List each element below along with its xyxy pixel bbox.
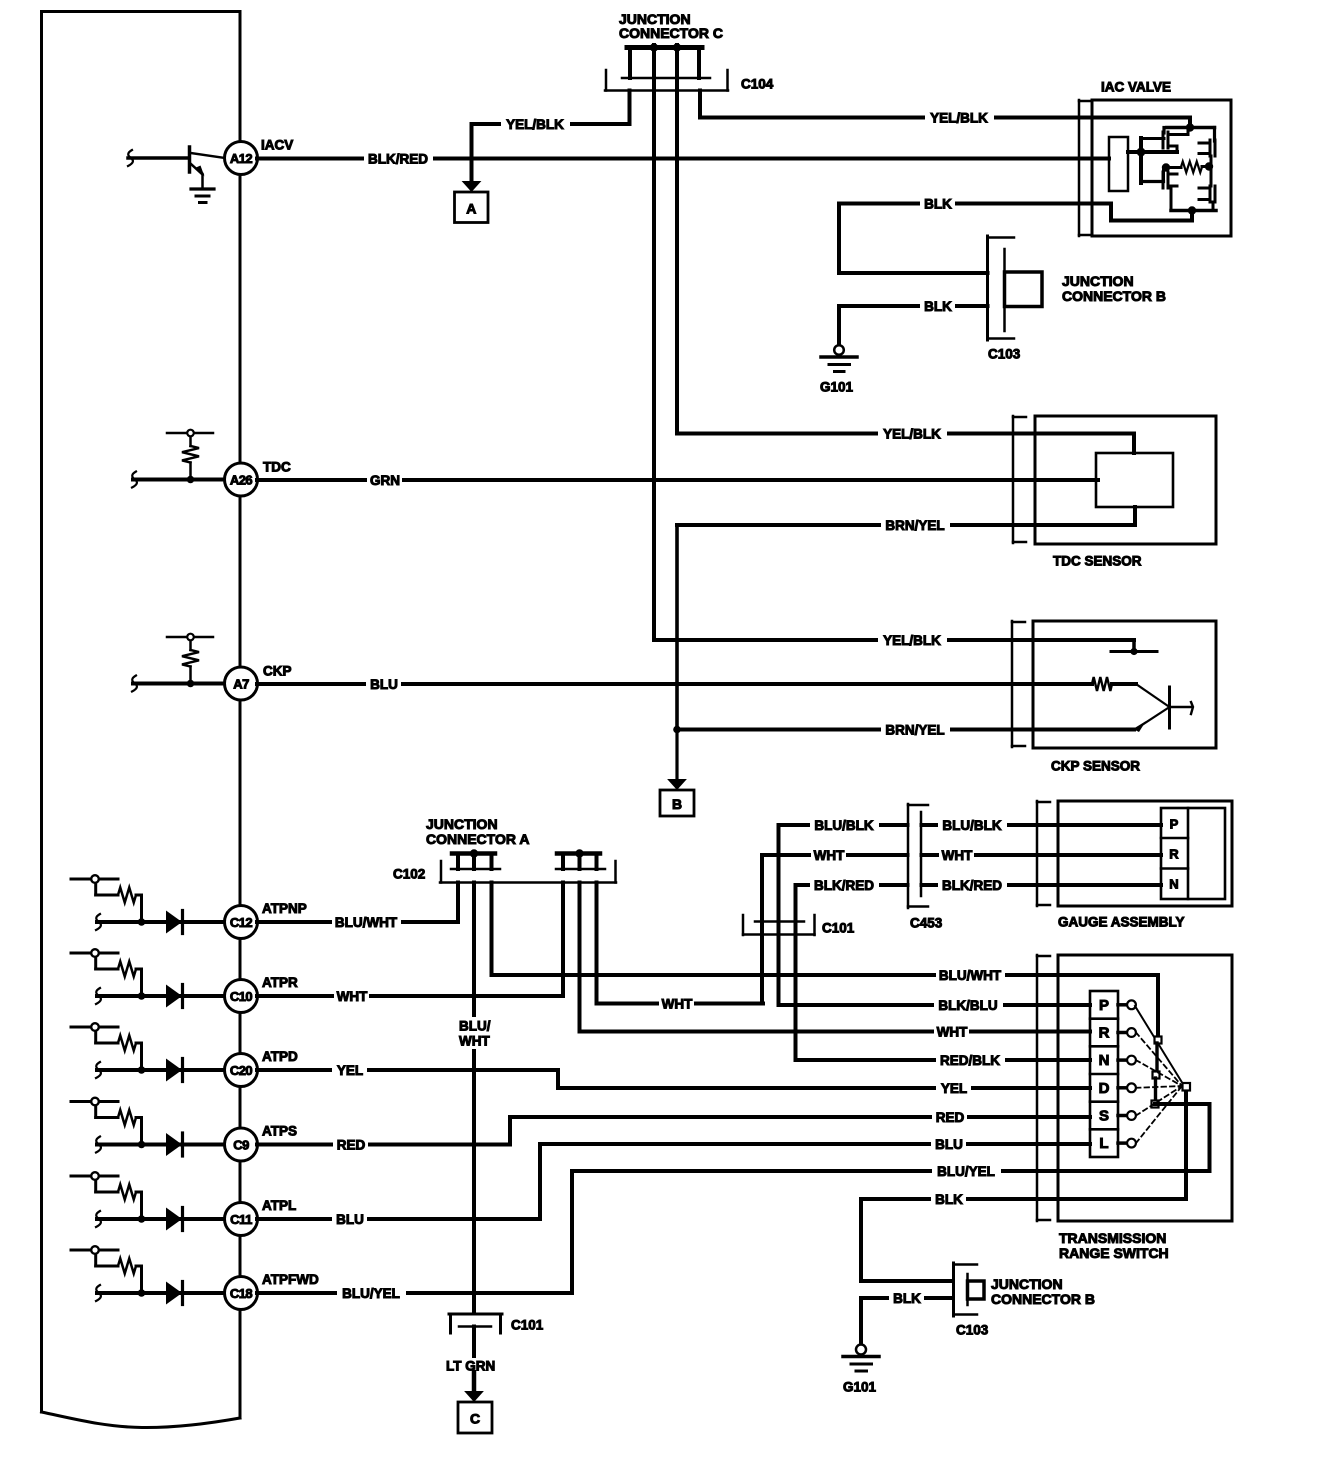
label WHT left of C453	[811, 847, 846, 863]
svg-text:C11: C11	[230, 1212, 252, 1227]
wire YEL/BLK from connector C to IAC valve	[700, 91, 1190, 118]
range switch rotor feed riser (BLU/WHT)	[1156, 975, 1160, 1037]
rotor pivot contact	[1183, 1083, 1191, 1091]
junction dot IAC mid	[1137, 148, 1146, 157]
label RED/BLK at switch	[936, 1052, 1005, 1068]
pull-up and diode network at pin C18	[71, 1250, 118, 1266]
wire YEL/BLK from connector C to CKP sensor	[654, 638, 1134, 642]
junction dot on C11 lead	[138, 1215, 146, 1223]
junction dot on housing 1	[470, 849, 478, 857]
rotor contact A	[1155, 1037, 1162, 1044]
TDC sensor case	[1035, 416, 1216, 544]
svg-text:C101: C101	[822, 921, 855, 936]
svg-text:D: D	[1099, 1080, 1110, 1097]
junction connector C pin 1 (x=654)	[652, 45, 656, 640]
svg-text:RANGE SWITCH: RANGE SWITCH	[1059, 1245, 1169, 1261]
label WHT	[334, 988, 369, 1004]
resistor R-C11	[118, 1185, 136, 1200]
IAC valve internal links	[1141, 167, 1211, 187]
transistor M2 top-right in IAC valve	[1199, 128, 1215, 164]
svg-text:C12: C12	[230, 915, 253, 930]
svg-text:P: P	[1170, 817, 1179, 832]
wire break tick	[96, 1062, 101, 1078]
wire into diode D-C10	[97, 994, 225, 998]
wire BLK from range switch to junction connector B (lower)	[861, 1090, 1186, 1281]
diode D-C12	[166, 911, 183, 934]
label YEL/BLK	[878, 632, 947, 648]
wire YEL/BLK from connector C to TDC sensor	[677, 432, 1134, 436]
connector C103 (junction connector B, upper)	[988, 236, 1043, 340]
svg-text:YEL: YEL	[337, 1063, 363, 1078]
resistor lead to A26 wire	[189, 463, 192, 480]
ground G101 (lower)	[843, 1345, 879, 1372]
ground G101 (upper)	[821, 345, 857, 371]
arrow into connector box A	[462, 181, 482, 192]
power node circle at C20	[91, 1023, 99, 1031]
junction dot on housing 2	[575, 849, 583, 857]
transistor M3 bottom-left in IAC valve	[1163, 172, 1177, 211]
wire into diode D-C20	[97, 1068, 225, 1072]
svg-text:ATPL: ATPL	[262, 1198, 296, 1213]
wire BLK from G101 to junction connector B (lower)	[861, 1298, 953, 1345]
svg-text:CONNECTOR B: CONNECTOR B	[991, 1291, 1095, 1307]
diode D-C9	[166, 1133, 183, 1156]
svg-text:A: A	[466, 200, 476, 216]
junction dot on C18 lead	[138, 1289, 146, 1297]
label YEL/BLK	[925, 110, 994, 126]
wire BLK/RED into IAC valve IC	[1092, 157, 1109, 161]
junction connector A housing 1	[452, 854, 495, 870]
wire BRN/YEL from node B riser to CKP sensor	[677, 728, 1134, 732]
svg-text:C104: C104	[741, 77, 774, 92]
connector bracket at range switch	[1036, 955, 1039, 1221]
connector bracket at TDC sensor	[1012, 416, 1015, 543]
svg-text:RED: RED	[337, 1138, 366, 1153]
contact stub L	[1118, 1141, 1128, 1145]
diode D-C11	[166, 1208, 183, 1231]
svg-text:BLK/BLU: BLK/BLU	[938, 998, 997, 1013]
svg-text:R: R	[1099, 1025, 1110, 1042]
contact stub N	[1118, 1058, 1128, 1062]
connector C101 (lower)	[449, 1314, 502, 1333]
dashed rotor throw to S	[1136, 1086, 1182, 1116]
wire WHT from junction connector A to range switch	[580, 883, 1091, 1032]
svg-text:CONNECTOR A: CONNECTOR A	[426, 831, 529, 847]
wire into diode D-C9	[97, 1143, 225, 1147]
svg-text:BLK: BLK	[893, 1291, 921, 1306]
label BLK	[920, 298, 955, 314]
label WHT at switch	[934, 1024, 969, 1040]
svg-text:GRN: GRN	[370, 473, 400, 488]
svg-text:WHT: WHT	[662, 997, 693, 1012]
pin C11 (ATPL)	[225, 1203, 258, 1236]
svg-text:BLU/YEL: BLU/YEL	[342, 1286, 400, 1301]
contact stub D	[1118, 1086, 1128, 1090]
svg-text:YEL/BLK: YEL/BLK	[930, 111, 988, 126]
svg-text:BLU/WHT: BLU/WHT	[335, 915, 398, 930]
junction dot on connector C pin 2	[673, 43, 681, 51]
junction dot on C10 lead	[138, 992, 146, 1000]
label BLU/WHT	[332, 914, 401, 930]
power node circle at C11	[91, 1172, 99, 1180]
coil lead dots	[1162, 162, 1213, 171]
label GRN	[367, 472, 402, 488]
label BLU/YEL at switch	[932, 1163, 1001, 1179]
wire BLK/RED from A12 to IAC valve	[257, 157, 1092, 161]
connector bracket at gauge assembly	[1036, 801, 1039, 906]
wire BLU from A7 to CKP sensor	[257, 682, 1092, 686]
label BLK at switch	[931, 1191, 966, 1207]
svg-text:BLU/BLK: BLU/BLK	[942, 818, 1001, 833]
connector C453	[908, 804, 928, 908]
contact circle S	[1127, 1111, 1136, 1120]
svg-text:L: L	[1099, 1135, 1108, 1152]
wire RED/BLK from C101 to range switch	[796, 1058, 1091, 1062]
arrow into connector box B	[667, 779, 687, 790]
svg-text:G101: G101	[820, 380, 854, 395]
transistor M1 top-left in IAC valve	[1163, 128, 1188, 153]
pin C10 (ATPR)	[225, 980, 258, 1013]
wire BRN/YEL from node B riser to TDC sensor	[677, 525, 1135, 730]
contact circle L	[1127, 1139, 1136, 1148]
connector C104 symbol	[605, 70, 728, 91]
label YEL/BLK	[501, 116, 570, 132]
IAC valve internal wire from YEL/BLK entry	[1167, 118, 1215, 128]
svg-text:ATPS: ATPS	[262, 1124, 297, 1139]
rotor contact C	[1152, 1101, 1159, 1108]
wire into diode D-C18	[97, 1291, 225, 1295]
svg-text:A26: A26	[230, 473, 253, 488]
power node circle at C12	[91, 875, 99, 883]
svg-text:JUNCTION: JUNCTION	[426, 816, 498, 832]
svg-text:C103: C103	[988, 347, 1021, 362]
dashed rotor throw to D	[1136, 1086, 1182, 1088]
TDC sensor internal leads	[1134, 434, 1135, 526]
power node circle at C9	[91, 1098, 99, 1106]
pin C12 (ATPNP)	[225, 906, 258, 939]
label BLU/BLK left of C453	[810, 817, 879, 833]
junction connector A housing 2	[557, 854, 600, 870]
wire riser to connector box B	[675, 730, 678, 782]
label BLU/YEL	[337, 1285, 406, 1301]
svg-text:WHT: WHT	[337, 989, 368, 1004]
svg-text:LT GRN: LT GRN	[446, 1359, 495, 1374]
wire into diode D-C12	[97, 920, 225, 924]
svg-text:CKP: CKP	[263, 664, 292, 679]
contact stub P	[1118, 1003, 1128, 1007]
svg-text:YEL/BLK: YEL/BLK	[883, 633, 941, 648]
dashed rotor throw to L	[1136, 1086, 1182, 1143]
svg-text:S: S	[1099, 1108, 1109, 1125]
wire WHT from junction connector A through C101 riser	[597, 883, 764, 1004]
label WHT mid	[659, 996, 694, 1012]
label YEL/BLK	[878, 426, 947, 442]
svg-text:P: P	[1099, 997, 1109, 1014]
resistor R-A26	[182, 446, 199, 463]
label BLU at switch	[931, 1136, 966, 1152]
svg-text:BLU/YEL: BLU/YEL	[937, 1164, 995, 1179]
svg-text:BLU: BLU	[370, 677, 398, 692]
label YEL at switch	[936, 1080, 971, 1096]
svg-text:C20: C20	[230, 1063, 253, 1078]
wire RED from C9 to transmission range switch	[257, 1117, 1090, 1145]
arrow into connector box C	[464, 1372, 484, 1402]
diode D-C18	[166, 1282, 183, 1305]
IAC valve internal node wires	[1128, 138, 1177, 183]
svg-text:C101: C101	[511, 1318, 544, 1333]
wire LT GRN from C101 to arrow C	[472, 1327, 476, 1376]
diode D-C10	[166, 985, 183, 1008]
svg-text:YEL/BLK: YEL/BLK	[883, 427, 941, 442]
svg-text:GAUGE ASSEMBLY: GAUGE ASSEMBLY	[1058, 915, 1185, 930]
connector C103 (junction connector B, lower)	[954, 1263, 985, 1316]
wire BLK/RED gauge-side riser through C101	[796, 885, 1162, 1060]
wire WHT gauge-side riser through C101	[762, 855, 1161, 1004]
svg-text:TDC: TDC	[263, 460, 291, 475]
label YEL	[332, 1062, 367, 1078]
svg-text:C9: C9	[233, 1138, 249, 1153]
resistor lead to A7 wire	[189, 667, 192, 684]
label RED at switch	[932, 1109, 967, 1125]
pin A7 (CKP)	[225, 667, 258, 700]
resistor R-C9	[118, 1110, 136, 1125]
junction dot on C12 lead	[138, 918, 146, 926]
svg-text:BLK/RED: BLK/RED	[942, 878, 1002, 893]
junction connector C housing	[627, 48, 702, 79]
IAC valve case	[1092, 100, 1231, 236]
power node circle at C10	[91, 949, 99, 957]
svg-text:WHT: WHT	[814, 848, 845, 863]
svg-text:BLU/: BLU/	[459, 1019, 491, 1034]
pull-up and diode network at pin C10	[71, 953, 118, 969]
svg-text:BLK/RED: BLK/RED	[368, 152, 428, 167]
CKP sensor pickup coil	[1092, 677, 1112, 691]
svg-text:BRN/YEL: BRN/YEL	[885, 723, 944, 738]
transistor M4 bottom-right in IAC valve	[1199, 186, 1215, 211]
svg-text:BRN/YEL: BRN/YEL	[885, 518, 944, 533]
pull-up and diode network at pin C9	[71, 1102, 118, 1118]
CKP sensor case	[1033, 621, 1216, 748]
svg-text:C18: C18	[230, 1286, 253, 1301]
label BLK	[920, 196, 955, 212]
svg-text:BLU/WHT: BLU/WHT	[939, 968, 1002, 983]
wire into diode D-C11	[97, 1217, 225, 1221]
svg-text:ATPD: ATPD	[262, 1049, 298, 1064]
pin A26 (TDC)	[225, 463, 258, 496]
resistor R-C10	[118, 962, 136, 977]
wire BLU/YEL from C18 to transmission range switch	[257, 1171, 1210, 1293]
dashed rotor throw to N	[1136, 1060, 1182, 1086]
wire break tick	[132, 676, 137, 692]
contact stub S	[1118, 1114, 1128, 1118]
svg-text:G101: G101	[843, 1380, 877, 1395]
gauge PRN indicator block	[1161, 808, 1225, 899]
svg-text:BLU/BLK: BLU/BLK	[814, 818, 873, 833]
coil L1 inside IAC valve	[1166, 166, 1181, 169]
power node circle at C18	[91, 1246, 99, 1254]
wire BLK/BLU from C101 to range switch	[779, 1003, 1091, 1007]
range switch PRNDSL position block	[1090, 991, 1118, 1157]
label BLU	[332, 1211, 367, 1227]
contact circle R	[1127, 1028, 1136, 1037]
junction dot IAC top	[1186, 123, 1194, 131]
junction dot on A26 lead	[187, 476, 195, 484]
svg-text:WHT: WHT	[459, 1034, 490, 1049]
label WHT right of C453	[939, 847, 974, 863]
wire GRN from A26 to TDC sensor	[257, 478, 1098, 482]
rotor contact B	[1153, 1072, 1160, 1079]
svg-text:WHT: WHT	[942, 848, 973, 863]
pin A12 (IACV)	[225, 142, 258, 175]
svg-text:C10: C10	[230, 989, 253, 1004]
svg-text:IAC VALVE: IAC VALVE	[1101, 80, 1171, 95]
gauge assembly case	[1058, 801, 1232, 906]
rotor link A-B	[1155, 1043, 1158, 1072]
svg-text:JUNCTION: JUNCTION	[991, 1276, 1063, 1292]
dashed rotor throw to R	[1136, 1033, 1182, 1087]
connector bracket at CKP sensor	[1011, 621, 1014, 747]
svg-text:ATPNP: ATPNP	[262, 901, 307, 916]
svg-text:BLK: BLK	[935, 1192, 963, 1207]
transmission range switch case	[1058, 955, 1232, 1221]
svg-text:ATPR: ATPR	[262, 975, 298, 990]
wire break tick	[96, 1137, 101, 1153]
CKP sensor internal: shield lead	[1111, 640, 1157, 652]
wire BLU/WHT from junction connector A to range switch	[492, 883, 1159, 976]
power node circle at A26 pull-up	[187, 430, 194, 437]
label BLK/BLU at switch	[934, 997, 1003, 1013]
resistor R-C18	[118, 1259, 136, 1274]
svg-text:CONNECTOR C: CONNECTOR C	[619, 25, 723, 41]
rotor output path to BLU/YEL	[1155, 1104, 1210, 1171]
transistor Q1 (IACV driver inside ECM)	[128, 147, 225, 188]
svg-text:TDC SENSOR: TDC SENSOR	[1053, 554, 1142, 569]
contact circle D	[1127, 1083, 1136, 1092]
ECM/PCM connector body (left tall box)	[42, 12, 241, 1428]
junction dot IAC bottom	[1188, 206, 1196, 214]
junction connector C pin 2 (x=677)	[675, 45, 679, 434]
label BLU/BLK right of C453	[938, 817, 1007, 833]
pin C20 (ATPD)	[225, 1054, 258, 1087]
svg-text:BLK/RED: BLK/RED	[814, 878, 874, 893]
IAC valve drive IC block	[1109, 137, 1128, 191]
diode D-C20	[166, 1059, 183, 1082]
pull-up and diode network at pin C11	[71, 1176, 118, 1192]
wire BLU/WHT from C12 to junction connector A	[257, 883, 458, 923]
wire break tick	[132, 472, 137, 488]
label BLK/RED left of C453	[810, 877, 879, 893]
svg-text:TRANSMISSION: TRANSMISSION	[1059, 1230, 1166, 1246]
svg-text:B: B	[672, 796, 682, 812]
connector box B	[660, 790, 694, 816]
junction dot on C20 lead	[138, 1066, 146, 1074]
wire WHT from C10 to junction connector A	[257, 883, 563, 997]
svg-text:YEL: YEL	[941, 1081, 967, 1096]
svg-text:C453: C453	[910, 916, 943, 931]
rotor link B-C	[1154, 1078, 1157, 1101]
resistor R-C20	[118, 1036, 136, 1051]
svg-text:R: R	[1169, 847, 1179, 862]
resistor R-A7	[182, 650, 199, 667]
wire into pin A7	[133, 682, 225, 686]
junction dot at node B riser	[673, 726, 681, 734]
svg-text:A7: A7	[233, 677, 249, 692]
svg-text:YEL/BLK: YEL/BLK	[506, 117, 564, 132]
contact stub R	[1118, 1031, 1128, 1035]
wire BLK from G101 to junction connector B	[839, 306, 988, 345]
label BRN/YEL	[881, 722, 950, 738]
svg-text:CONNECTOR B: CONNECTOR B	[1062, 288, 1166, 304]
svg-text:ATPFWD: ATPFWD	[262, 1272, 319, 1287]
svg-text:BLU: BLU	[935, 1137, 963, 1152]
connector box C	[458, 1402, 492, 1433]
svg-text:RED/BLK: RED/BLK	[940, 1053, 1000, 1068]
wire BLU/WHT trunk from junction connector A to C101	[472, 883, 476, 1312]
wire BLU from C11 to transmission range switch	[257, 1144, 1090, 1219]
wire break tick	[96, 914, 101, 930]
svg-text:N: N	[1169, 877, 1178, 892]
label BLU/WHT at switch	[936, 967, 1005, 983]
wire BLU/BLK gauge-side riser through C101	[779, 825, 1162, 1005]
pin C9 (ATPS)	[225, 1128, 258, 1161]
wire break tick at transistor base lead	[128, 150, 133, 166]
svg-text:RED: RED	[936, 1110, 965, 1125]
label BLK/RED right of C453	[938, 877, 1007, 893]
junction dot on C9 lead	[138, 1141, 146, 1149]
wire YEL/BLK from connector C to arrow A	[472, 91, 630, 182]
pin C18 (ATPFWD)	[225, 1277, 258, 1310]
svg-text:N: N	[1099, 1052, 1110, 1069]
svg-text:C102: C102	[393, 867, 425, 882]
connector C101 (upper)	[743, 915, 815, 935]
pull-up network at pin A26	[167, 433, 213, 446]
svg-text:IACV: IACV	[261, 138, 293, 153]
label BLK/RED	[364, 151, 433, 167]
connector box A	[455, 192, 489, 223]
rotor arm solid line P to pivot	[1135, 1006, 1183, 1084]
dot on CKP shield bar	[1130, 648, 1137, 655]
CKP sensor internal leads	[1112, 684, 1193, 732]
svg-text:BLK: BLK	[924, 197, 952, 212]
svg-text:BLU: BLU	[336, 1212, 364, 1227]
label RED	[333, 1137, 368, 1153]
label BLU	[366, 676, 401, 692]
svg-text:JUNCTION: JUNCTION	[1062, 273, 1134, 289]
svg-text:C: C	[470, 1411, 480, 1427]
pull-up and diode network at pin C12	[71, 879, 118, 895]
label LT GRN	[444, 1358, 506, 1374]
contact circle N	[1127, 1056, 1136, 1065]
connector bracket at IAC valve	[1078, 100, 1081, 236]
junction dot on A7 lead	[187, 680, 195, 688]
junction dot on connector C pin 1	[650, 43, 658, 51]
connector C102 symbol	[440, 861, 616, 883]
wire YEL from C20 to transmission range switch	[257, 1070, 1090, 1088]
wire BLK from IAC valve to junction connector B	[839, 204, 988, 274]
wire into pin A26	[133, 478, 225, 482]
pull-up network at pin A7	[167, 637, 213, 650]
svg-text:WHT: WHT	[937, 1025, 968, 1040]
svg-text:A12: A12	[230, 151, 253, 166]
label BRN/YEL	[881, 517, 950, 533]
pull-up and diode network at pin C20	[71, 1027, 118, 1043]
wire break tick	[96, 988, 101, 1004]
resistor R-C12	[118, 888, 136, 903]
svg-text:CKP SENSOR: CKP SENSOR	[1051, 759, 1140, 774]
wire break tick	[96, 1211, 101, 1227]
svg-text:BLK: BLK	[924, 299, 952, 314]
svg-text:C103: C103	[956, 1323, 989, 1338]
